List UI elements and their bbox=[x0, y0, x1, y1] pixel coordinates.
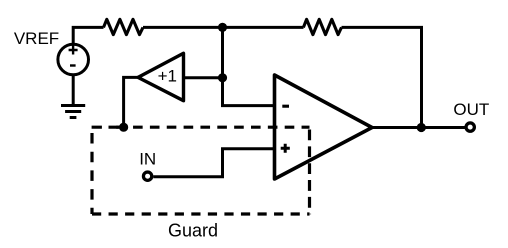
buffer op-amp U2 (+1 follower) bbox=[138, 53, 184, 100]
plus sign of source bbox=[69, 46, 78, 55]
op-amp inverting input minus sign bbox=[282, 105, 289, 108]
wire op-amp output to OUT bbox=[371, 126, 466, 129]
wire IN to non-inverting input bbox=[153, 149, 276, 177]
terminal IN bbox=[143, 172, 151, 180]
resistor R1 bbox=[104, 19, 144, 34]
node junction output bbox=[417, 123, 426, 132]
guard box dashed right edge bbox=[308, 130, 311, 215]
wire R1 to R2 bbox=[143, 26, 304, 29]
node junction buffer input bbox=[218, 73, 227, 82]
svg-text:OUT: OUT bbox=[453, 100, 489, 119]
svg-text:+1: +1 bbox=[158, 66, 177, 85]
wire R2 right corner down to output node bbox=[342, 27, 422, 127]
wire buffer input bbox=[184, 76, 223, 79]
ground bbox=[61, 106, 85, 118]
guard box dashed left edge bbox=[90, 133, 93, 214]
svg-text:Guard: Guard bbox=[168, 220, 218, 240]
voltage source VREF bbox=[58, 44, 89, 75]
svg-text:VREF: VREF bbox=[14, 29, 59, 48]
op-amp U1 bbox=[275, 75, 373, 179]
svg-text:IN: IN bbox=[139, 150, 156, 169]
node junction top bbox=[218, 23, 227, 32]
wire node down to inverting input bbox=[223, 27, 277, 105]
wire source bottom to ground bbox=[72, 75, 75, 105]
terminal OUT bbox=[466, 123, 474, 131]
guard box dashed top edge left piece bbox=[92, 126, 124, 129]
wire VREF top to R1 bbox=[73, 27, 103, 43]
minus sign of source bbox=[70, 64, 76, 66]
node junction on guard top edge bbox=[119, 123, 128, 132]
wire buffer output to guard bbox=[124, 77, 139, 127]
guard box dashed bottom edge bbox=[92, 212, 310, 215]
op-amp non-inverting input plus sign bbox=[281, 144, 290, 153]
resistor R2 bbox=[303, 19, 341, 34]
guard box dashed top edge right piece bbox=[116, 126, 309, 129]
